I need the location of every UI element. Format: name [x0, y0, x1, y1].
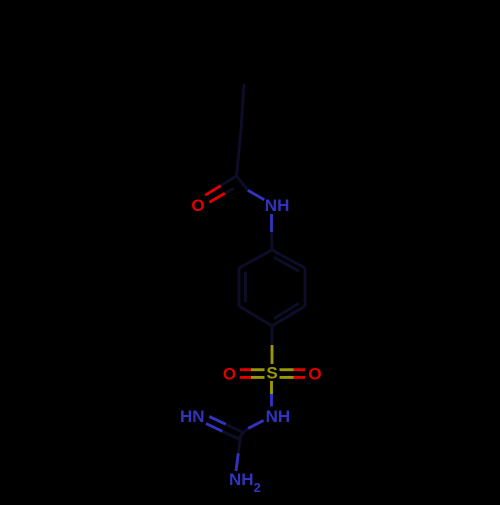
- bond C1=O1 double: offset line carbon half: [225, 188, 234, 193]
- bond S-N2 sulfur half: [270, 381, 273, 394]
- bond S=O3 lower line oxygen half: [294, 376, 306, 379]
- bond C4=N3 double anchor nitrogen half: [206, 424, 223, 432]
- ring inner aromatic line LL-UL: [244, 272, 247, 303]
- ring inner aromatic line T-UR: [274, 257, 299, 271]
- bond N2-C4 nitrogen half: [248, 420, 264, 428]
- svg-text:S: S: [266, 364, 277, 383]
- bond C1=O1 double: anchor carbon half: [221, 176, 237, 186]
- ring edge UL-T: [239, 250, 272, 268]
- bond C4=N3 double offset nitrogen half: [209, 417, 225, 425]
- ring edge B-LL: [239, 306, 272, 326]
- bond C1-N1 nitrogen half: [248, 190, 264, 200]
- bond C1-N1 carbon half: [237, 176, 248, 190]
- bond C4=N3 double offset carbon half: [226, 424, 243, 432]
- bond C1=O1 double: anchor oxygen half: [205, 186, 221, 196]
- svg-text:NH: NH: [265, 196, 290, 215]
- bond S=O3 upper line oxygen half: [294, 368, 306, 371]
- bond CH2-C1 carbonyl: [237, 130, 242, 176]
- bond C1=O1 double: offset line oxygen half: [209, 193, 224, 202]
- svg-text:O: O: [191, 196, 204, 215]
- svg-text:O: O: [223, 365, 236, 384]
- bond N2-C4 carbon half: [241, 428, 249, 435]
- bond S=O3 upper line sulfur half: [280, 368, 294, 371]
- bond S=O2 upper line sulfur half: [251, 368, 265, 371]
- bond B-S carbon half: [271, 326, 274, 345]
- bond S=O2 lower line oxygen half: [240, 376, 251, 379]
- bond S-N2 nitrogen half: [270, 394, 273, 407]
- bond B-S sulfur half: [271, 345, 274, 364]
- bond S=O2 upper line oxygen half: [240, 368, 251, 371]
- bond C4-N4 nitrogen half: [236, 453, 238, 471]
- bond C4-N4 carbon half: [238, 436, 240, 454]
- bond CH3-CH2 (carbon chain top): [241, 84, 244, 130]
- bond N1-ring nitrogen half: [270, 214, 273, 232]
- ring inner aromatic line LR-B: [274, 303, 299, 318]
- bond S=O3 lower line sulfur half: [280, 376, 294, 379]
- bond C4=N3 double anchor carbon half: [222, 431, 238, 439]
- bond N1-ring carbon half: [270, 232, 273, 250]
- svg-text:HN: HN: [180, 407, 205, 426]
- ring edge LR-B: [272, 306, 305, 326]
- ring edge UR-LR: [304, 268, 307, 306]
- bond S=O2 lower line sulfur half: [251, 376, 265, 379]
- svg-text:O: O: [308, 365, 321, 384]
- svg-text:NH: NH: [266, 407, 291, 426]
- ring edge T-UR: [272, 250, 305, 268]
- ring edge LL-UL: [238, 268, 241, 306]
